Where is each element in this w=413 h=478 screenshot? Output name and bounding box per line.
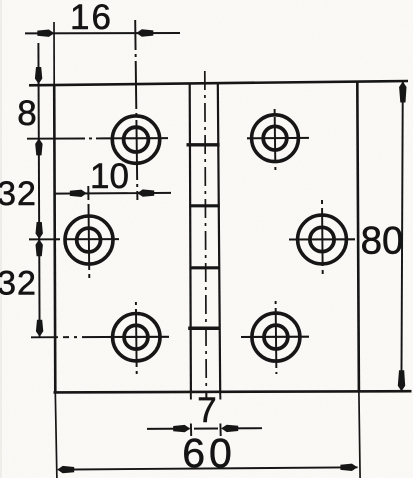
row1 crosshair h top-left hole <box>103 137 168 139</box>
arrow 10 left (points right, tip at mid-left hole centerline) <box>70 190 87 197</box>
left dimension chain line (8/32/32) <box>38 43 39 337</box>
knuckle joint 2 <box>189 204 220 207</box>
row3 crosshair h bottom-right hole <box>241 336 309 338</box>
plate bottom edge with right extension <box>54 391 412 392</box>
arrow 60 left (points left, tip at left extension) <box>57 466 74 473</box>
dim line 80 <box>401 82 402 392</box>
knuckle joint 4 <box>188 326 220 330</box>
row1 centerline left approach <box>27 137 103 139</box>
arrow 80 bottom (points down, tip at bottom edge) <box>398 370 405 391</box>
row2 crosshair h mid-right hole <box>289 238 355 240</box>
hole mid-left inner circle <box>77 228 101 252</box>
row2 crosshair h mid-left hole <box>56 238 119 240</box>
hinge barrel right line <box>218 82 220 392</box>
arrow lower 32 bottom (points down, tip at row3 centerline) <box>36 320 43 337</box>
dim line 7 middle segment <box>194 428 218 430</box>
hole mid-right outer circle <box>298 215 347 264</box>
arrow lower 32 top (points up, tip at row2 centerline) <box>36 239 43 256</box>
arrow 32 bottom (points down, tip at row2 centerline) <box>36 222 43 239</box>
row1 crosshair h top-right hole <box>247 137 309 139</box>
barrel extension stub center <box>205 393 207 400</box>
row3 centerline left approach <box>31 336 104 338</box>
left edge upper extension (16 dim) <box>53 22 55 85</box>
hole bottom-right outer circle <box>252 313 300 361</box>
arrow 8 top (points down, tip at plate top edge) <box>35 67 42 84</box>
arrow 16 right (points left, tip at hole centerline) <box>136 29 153 36</box>
arrow 10 right (points left, tip at top-left hole centerline) <box>137 189 154 196</box>
hole bottom-left outer circle <box>113 314 160 361</box>
row3 crosshair h bottom-left hole <box>104 336 169 338</box>
left edge lower extension (60 dim) <box>55 392 57 478</box>
dim line 10 <box>55 192 171 195</box>
dim line 7 right segment <box>223 427 263 429</box>
svg-text:7: 7 <box>197 391 216 430</box>
svg-text:60: 60 <box>182 430 236 476</box>
plate right edge <box>357 82 359 393</box>
svg-text:16: 16 <box>70 0 113 37</box>
column centerline top-left hole (16 dim extension) <box>135 20 137 200</box>
hinge barrel left line <box>190 84 191 393</box>
svg-text:10: 10 <box>90 157 129 196</box>
plate top edge with extension lines <box>29 81 408 85</box>
hole top-right outer circle <box>252 115 299 162</box>
column centerline bottom-left hole <box>135 302 138 374</box>
arrow 16 left (points right, tip at left extension) <box>37 30 54 37</box>
dim 7 left tick <box>190 424 192 437</box>
dim line 7 left segment <box>147 428 190 430</box>
dim line 16 <box>25 32 180 34</box>
hole bottom-left inner circle <box>124 325 148 349</box>
arrow 8 bottom / 32 top (points up, tip at row1 centerline) <box>35 138 42 155</box>
plate left edge <box>54 85 55 393</box>
svg-text:8: 8 <box>17 94 36 133</box>
right edge lower extension (60 dim) <box>359 392 360 478</box>
arrow 7 right (points left, tip at right tick) <box>221 425 238 432</box>
hole top-left outer circle <box>112 116 159 163</box>
svg-text:80: 80 <box>361 220 404 263</box>
hole top-right inner circle <box>263 126 287 150</box>
hole top-left inner circle <box>124 127 149 152</box>
dim line 60 <box>59 467 358 469</box>
hole bottom-right inner circle <box>264 325 288 349</box>
arrow 7 left (points right, tip at left tick) <box>173 425 190 432</box>
arrow 80 top (points up, tip at top edge) <box>399 82 406 103</box>
barrel extension stub right <box>219 393 221 400</box>
svg-text:32: 32 <box>0 175 37 213</box>
arrow 60 right (points right, tip at right extension) <box>340 464 357 471</box>
hinge barrel centerline <box>205 71 207 397</box>
barrel extension stub left <box>190 393 192 400</box>
dim 7 right tick <box>219 424 221 437</box>
scan shading left edge <box>0 0 2 478</box>
knuckle joint 3 <box>190 266 221 269</box>
knuckle joint 1 <box>187 143 220 146</box>
column centerline mid-left hole (10 dim extension) <box>88 186 89 278</box>
column centerline mid-right hole <box>321 200 324 274</box>
svg-text:32: 32 <box>0 265 37 303</box>
column centerline top-right hole <box>274 109 277 170</box>
column centerline bottom-right hole <box>275 301 278 374</box>
hole mid-left outer circle <box>65 216 113 264</box>
hole mid-right inner circle <box>310 227 334 251</box>
row2 centerline left approach <box>29 238 56 240</box>
